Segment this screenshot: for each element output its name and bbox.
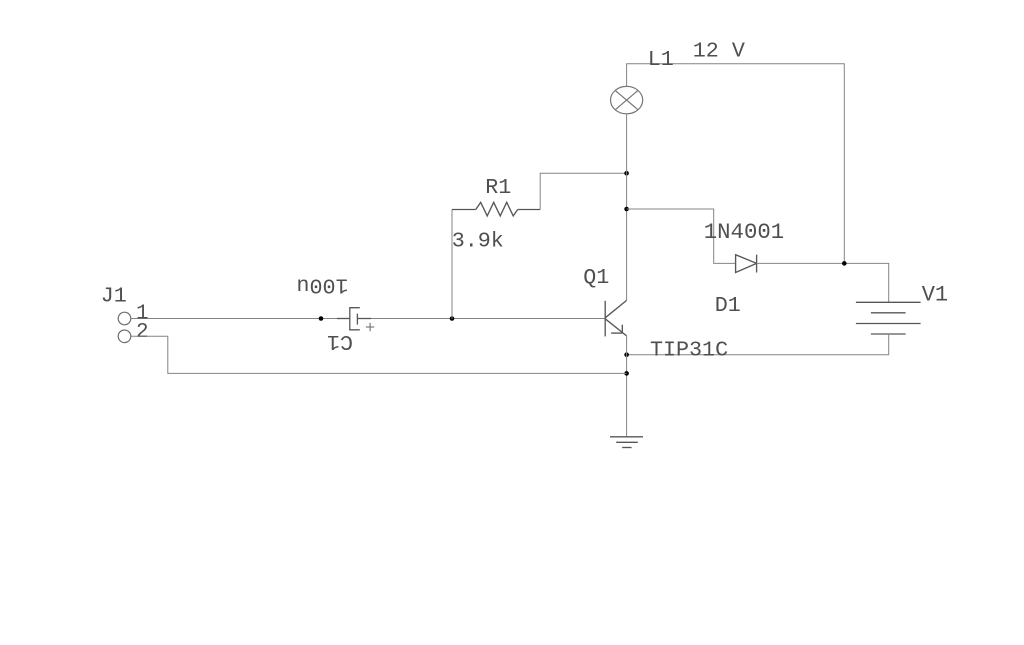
connector J1 xyxy=(118,312,131,342)
wire R1 right to collector net xyxy=(518,209,541,211)
svg-text:1N4001: 1N4001 xyxy=(704,219,784,245)
wire V1 bottom to emitter net xyxy=(627,334,889,355)
node junction emitter/V1 xyxy=(624,352,629,357)
wire top net 12V rail xyxy=(627,64,845,264)
wire emitter down to ground xyxy=(626,336,628,437)
svg-text:100u: 100u xyxy=(296,273,348,298)
capacitor C1 xyxy=(337,308,371,330)
wire D1 cathode to V1 xyxy=(757,263,889,302)
svg-text:V1: V1 xyxy=(922,282,948,307)
svg-text:Q1: Q1 xyxy=(583,265,609,290)
svg-text:TIP31C: TIP31C xyxy=(650,338,728,363)
wire lamp bottom to Q1 collector xyxy=(626,114,628,301)
node junction emitter/J1 return xyxy=(624,371,629,376)
svg-text:J1: J1 xyxy=(101,284,127,309)
plus sign C1 xyxy=(366,323,374,331)
ground xyxy=(610,437,643,448)
svg-text:2: 2 xyxy=(136,321,149,344)
wire net: C1 to Q1 base xyxy=(358,318,605,320)
svg-text:12 V: 12 V xyxy=(693,38,745,63)
wire riser to R1 xyxy=(451,210,453,319)
node junction R1/collector xyxy=(624,171,629,176)
node junction D1 tap xyxy=(624,207,629,212)
wire to D1 anode xyxy=(627,209,736,263)
lamp L1 xyxy=(611,86,643,113)
node junction rail/V1 xyxy=(842,261,847,266)
transistor Q1 xyxy=(605,300,626,336)
diode D1 xyxy=(736,255,757,273)
svg-text:C1: C1 xyxy=(327,329,353,354)
svg-text:R1: R1 xyxy=(485,175,511,200)
node junction R1 tap xyxy=(450,316,455,321)
resistor R1 left pin xyxy=(452,209,476,211)
svg-text:D1: D1 xyxy=(715,293,741,318)
battery V1 xyxy=(856,302,921,334)
svg-text:L1: L1 xyxy=(648,47,674,72)
resistor R1 xyxy=(476,202,518,216)
wire net: J1 pin1 to C1 xyxy=(131,318,349,320)
svg-text:3.9k: 3.9k xyxy=(452,229,504,254)
wire R1 right to collector net xyxy=(540,173,626,209)
wire J1 pin2 return net xyxy=(131,336,627,373)
node junction on pin1 net xyxy=(319,316,324,321)
